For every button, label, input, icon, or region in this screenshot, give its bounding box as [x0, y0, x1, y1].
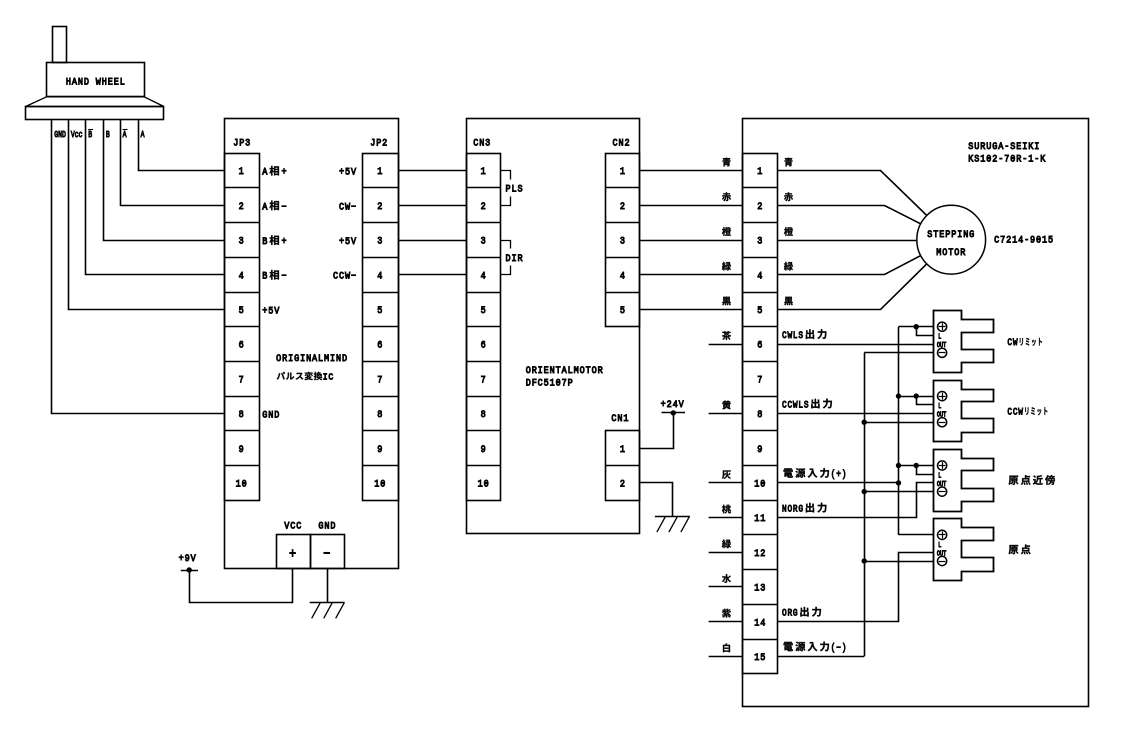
- svg-text:ORG: ORG: [782, 608, 798, 619]
- svg-text:+5V: +5V: [339, 235, 357, 247]
- svg-text:3: 3: [239, 235, 245, 247]
- svg-text:3: 3: [377, 235, 383, 247]
- svg-text:+: +: [282, 235, 288, 247]
- svg-text:9: 9: [377, 443, 383, 455]
- svg-text:2: 2: [377, 200, 383, 212]
- svg-text:CN2: CN2: [613, 137, 631, 149]
- svg-text:6: 6: [757, 339, 763, 351]
- svg-text:C7214-9015: C7214-9015: [994, 234, 1054, 246]
- svg-text:11: 11: [754, 513, 766, 525]
- svg-text:+: +: [289, 545, 297, 561]
- svg-text:8: 8: [757, 408, 763, 420]
- svg-text:B: B: [262, 270, 268, 282]
- svg-text:6: 6: [481, 339, 487, 351]
- svg-text:7: 7: [239, 374, 245, 386]
- svg-text:DFC5107P: DFC5107P: [526, 377, 574, 389]
- svg-text:2: 2: [481, 200, 487, 212]
- svg-text:A: A: [123, 130, 127, 140]
- svg-text:CW: CW: [1007, 337, 1018, 348]
- svg-text:7: 7: [377, 374, 383, 386]
- svg-text:A: A: [262, 166, 268, 178]
- svg-text:2: 2: [620, 200, 626, 212]
- svg-text:DIR: DIR: [506, 252, 524, 264]
- svg-text:9: 9: [239, 443, 245, 455]
- svg-text:CN3: CN3: [473, 137, 491, 149]
- svg-text:10: 10: [374, 478, 386, 490]
- svg-text:ORIGINALMIND: ORIGINALMIND: [276, 353, 348, 365]
- svg-text:7: 7: [757, 374, 763, 386]
- svg-text:KS102-70R-1-K: KS102-70R-1-K: [968, 153, 1046, 165]
- svg-text:CN1: CN1: [611, 413, 629, 425]
- svg-text:8: 8: [481, 408, 487, 420]
- svg-text:GND: GND: [262, 409, 280, 421]
- svg-text:NORG: NORG: [782, 504, 804, 515]
- svg-text:B: B: [262, 235, 268, 247]
- svg-text:GND: GND: [318, 520, 336, 532]
- svg-text:+24V: +24V: [661, 398, 685, 410]
- svg-text:MOTOR: MOTOR: [936, 246, 966, 258]
- svg-text:1: 1: [377, 166, 383, 178]
- svg-text:OUT: OUT: [937, 550, 947, 558]
- svg-text:(−): (−): [831, 642, 847, 653]
- svg-text:10: 10: [754, 478, 766, 490]
- svg-text:9: 9: [481, 443, 487, 455]
- svg-text:8: 8: [377, 408, 383, 420]
- svg-text:15: 15: [754, 651, 766, 663]
- svg-text:1: 1: [757, 166, 763, 178]
- svg-text:2: 2: [620, 478, 626, 490]
- svg-text:5: 5: [620, 304, 626, 316]
- svg-text:L: L: [938, 541, 941, 549]
- svg-text:1: 1: [620, 443, 626, 455]
- svg-text:L: L: [938, 333, 941, 341]
- svg-text:L: L: [938, 472, 941, 480]
- svg-text:Vcc: Vcc: [71, 130, 83, 140]
- svg-text:2: 2: [239, 200, 245, 212]
- svg-text:A: A: [141, 130, 145, 140]
- svg-text:12: 12: [754, 547, 766, 559]
- svg-text:1: 1: [481, 166, 487, 178]
- svg-text:OUT: OUT: [937, 341, 947, 349]
- svg-text:+: +: [282, 166, 288, 178]
- svg-text:CCWLS: CCWLS: [782, 400, 809, 411]
- svg-text:4: 4: [481, 270, 487, 282]
- svg-text:1: 1: [239, 166, 245, 178]
- svg-text:5: 5: [377, 304, 383, 316]
- svg-text:13: 13: [754, 582, 766, 594]
- svg-text:4: 4: [757, 270, 763, 282]
- svg-text:−: −: [323, 545, 331, 561]
- svg-text:−: −: [282, 201, 288, 213]
- svg-text:+9V: +9V: [179, 552, 197, 564]
- svg-text:ORIENTALMOTOR: ORIENTALMOTOR: [526, 364, 604, 376]
- svg-text:JP2: JP2: [370, 137, 388, 149]
- svg-text:10: 10: [236, 478, 248, 490]
- svg-text:5: 5: [481, 304, 487, 316]
- svg-text:9: 9: [757, 443, 763, 455]
- svg-text:CWLS: CWLS: [782, 330, 804, 341]
- svg-text:4: 4: [377, 270, 383, 282]
- svg-text:(+): (+): [831, 469, 847, 480]
- svg-text:A: A: [262, 201, 268, 213]
- svg-text:3: 3: [481, 235, 487, 247]
- svg-text:14: 14: [754, 617, 766, 629]
- svg-text:B: B: [88, 130, 92, 140]
- svg-text:5: 5: [239, 304, 245, 316]
- svg-text:PLS: PLS: [506, 183, 524, 195]
- svg-text:L: L: [938, 402, 941, 410]
- svg-text:HAND WHEEL: HAND WHEEL: [66, 76, 126, 88]
- svg-text:+5V: +5V: [339, 166, 357, 178]
- svg-text:3: 3: [620, 235, 626, 247]
- svg-text:OUT: OUT: [937, 480, 947, 488]
- svg-text:6: 6: [239, 339, 245, 351]
- svg-text:CCW−: CCW−: [333, 270, 357, 282]
- svg-text:8: 8: [239, 408, 245, 420]
- svg-text:SURUGA-SEIKI: SURUGA-SEIKI: [968, 140, 1040, 152]
- svg-text:2: 2: [757, 200, 763, 212]
- svg-text:7: 7: [481, 374, 487, 386]
- svg-text:VCC: VCC: [284, 520, 302, 532]
- svg-text:+5V: +5V: [262, 305, 280, 317]
- svg-text:IC: IC: [323, 372, 334, 383]
- svg-text:5: 5: [757, 304, 763, 316]
- svg-text:4: 4: [620, 270, 626, 282]
- svg-text:GND: GND: [54, 130, 66, 140]
- svg-text:B: B: [106, 130, 110, 140]
- svg-text:OUT: OUT: [937, 411, 947, 419]
- svg-text:−: −: [282, 270, 288, 282]
- svg-text:CW−: CW−: [339, 201, 357, 213]
- svg-text:CCW: CCW: [1007, 407, 1023, 418]
- svg-text:3: 3: [757, 235, 763, 247]
- svg-text:4: 4: [239, 270, 245, 282]
- svg-text:1: 1: [620, 166, 626, 178]
- svg-text:JP3: JP3: [233, 137, 251, 149]
- svg-text:10: 10: [478, 478, 490, 490]
- svg-text:STEPPING: STEPPING: [927, 229, 975, 241]
- svg-text:6: 6: [377, 339, 383, 351]
